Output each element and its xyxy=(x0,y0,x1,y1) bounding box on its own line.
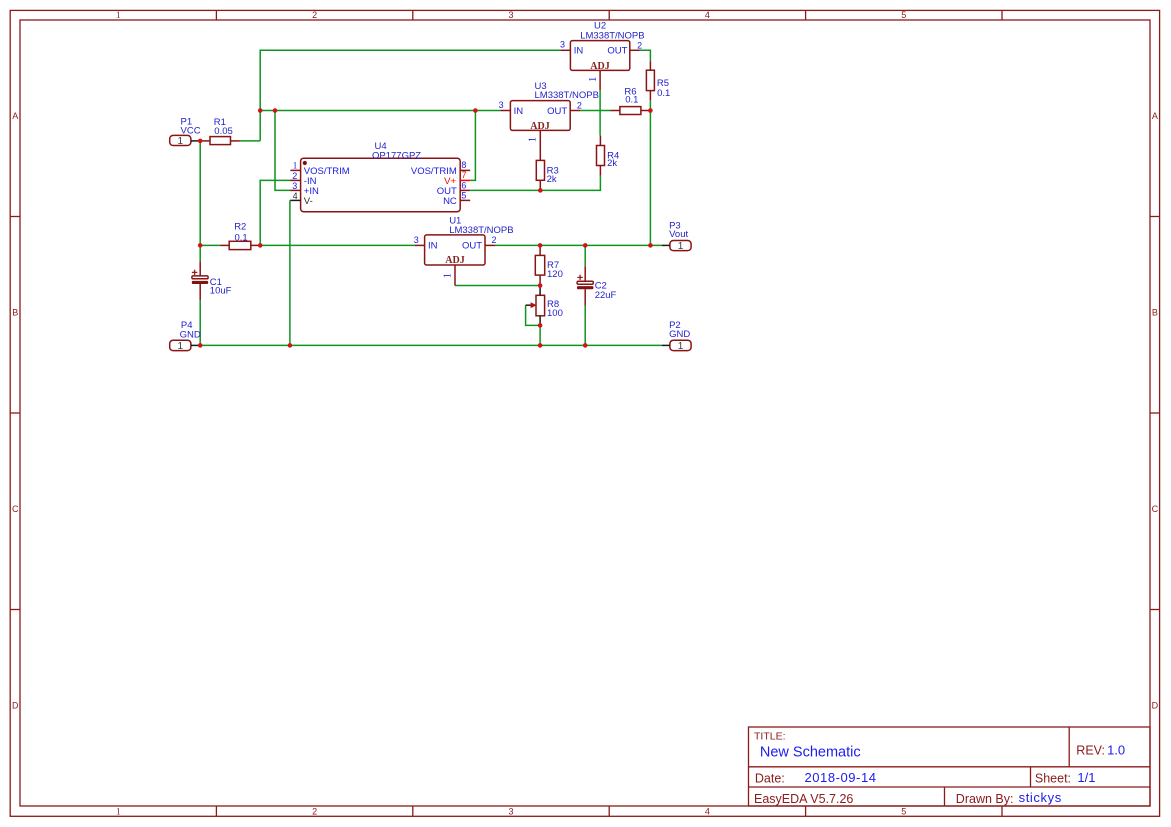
svg-text:1.0: 1.0 xyxy=(1107,743,1125,758)
svg-text:OUT: OUT xyxy=(462,241,482,252)
svg-text:GND: GND xyxy=(669,329,690,340)
svg-text:1: 1 xyxy=(116,807,121,817)
svg-text:0.05: 0.05 xyxy=(214,126,233,137)
svg-text:0.1: 0.1 xyxy=(657,88,670,99)
svg-text:A: A xyxy=(12,111,18,121)
svg-text:2: 2 xyxy=(492,235,497,245)
svg-text:3: 3 xyxy=(414,235,419,245)
svg-text:5: 5 xyxy=(901,10,906,20)
svg-text:D: D xyxy=(1152,700,1159,710)
svg-text:2k: 2k xyxy=(547,174,557,185)
svg-text:8: 8 xyxy=(461,160,466,170)
svg-text:2: 2 xyxy=(637,41,642,51)
svg-text:120: 120 xyxy=(547,269,563,280)
svg-text:2: 2 xyxy=(312,10,317,20)
svg-text:B: B xyxy=(1152,307,1158,317)
svg-text:GND: GND xyxy=(180,330,201,341)
svg-text:IN: IN xyxy=(574,46,584,57)
svg-text:LM338T/NOPB: LM338T/NOPB xyxy=(580,30,644,41)
svg-text:New Schematic: New Schematic xyxy=(760,745,861,761)
svg-text:0.1: 0.1 xyxy=(235,232,248,243)
svg-text:C: C xyxy=(12,504,19,514)
svg-text:3: 3 xyxy=(508,807,513,817)
svg-text:5: 5 xyxy=(901,807,906,817)
svg-text:C: C xyxy=(1152,504,1159,514)
svg-text:3: 3 xyxy=(499,100,504,110)
svg-text:ADJ: ADJ xyxy=(445,255,464,266)
svg-text:B: B xyxy=(12,307,18,317)
svg-text:4: 4 xyxy=(293,191,298,201)
svg-text:IN: IN xyxy=(514,106,524,117)
svg-text:1/1: 1/1 xyxy=(1077,770,1095,785)
svg-text:V-: V- xyxy=(304,196,313,207)
svg-text:OUT: OUT xyxy=(607,46,627,57)
svg-text:1: 1 xyxy=(443,273,454,278)
svg-text:1: 1 xyxy=(678,241,684,252)
svg-text:10uF: 10uF xyxy=(210,285,232,296)
svg-text:4: 4 xyxy=(705,10,710,20)
svg-text:2k: 2k xyxy=(607,158,617,169)
svg-text:REV:: REV: xyxy=(1076,744,1105,758)
svg-text:NC: NC xyxy=(443,196,457,207)
svg-text:3: 3 xyxy=(292,181,297,191)
svg-text:OP177GPZ: OP177GPZ xyxy=(372,150,421,161)
svg-text:Sheet:: Sheet: xyxy=(1035,772,1071,786)
svg-text:1: 1 xyxy=(678,341,684,352)
svg-text:ADJ: ADJ xyxy=(590,61,609,72)
svg-text:Drawn By:: Drawn By: xyxy=(956,792,1014,806)
svg-text:ADJ: ADJ xyxy=(530,121,549,132)
svg-text:OUT: OUT xyxy=(547,106,567,117)
svg-text:22uF: 22uF xyxy=(595,290,617,301)
svg-text:TITLE:: TITLE: xyxy=(754,731,786,743)
svg-text:2: 2 xyxy=(312,807,317,817)
svg-text:EasyEDA V5.7.26: EasyEDA V5.7.26 xyxy=(754,792,853,806)
svg-text:VCC: VCC xyxy=(181,125,201,136)
svg-text:6: 6 xyxy=(461,180,466,190)
svg-text:LM338T/NOPB: LM338T/NOPB xyxy=(535,90,599,101)
svg-text:3: 3 xyxy=(508,10,513,20)
svg-text:1: 1 xyxy=(178,341,184,352)
svg-text:1: 1 xyxy=(293,160,298,170)
svg-text:1: 1 xyxy=(178,136,184,147)
svg-text:stickys: stickys xyxy=(1019,790,1062,805)
svg-text:A: A xyxy=(1152,111,1158,121)
svg-text:3: 3 xyxy=(560,39,565,49)
svg-text:7: 7 xyxy=(462,170,467,180)
svg-text:2018-09-14: 2018-09-14 xyxy=(805,770,877,785)
svg-text:2: 2 xyxy=(292,171,297,181)
svg-text:LM338T/NOPB: LM338T/NOPB xyxy=(449,225,513,236)
svg-text:D: D xyxy=(12,700,19,710)
svg-text:4: 4 xyxy=(705,807,710,817)
svg-text:1: 1 xyxy=(588,77,599,82)
svg-text:IN: IN xyxy=(428,241,438,252)
svg-text:R2: R2 xyxy=(234,221,246,232)
svg-text:100: 100 xyxy=(547,308,563,319)
svg-text:2: 2 xyxy=(577,101,582,111)
svg-text:Vout: Vout xyxy=(669,229,688,240)
svg-text:1: 1 xyxy=(116,10,121,20)
svg-text:Date:: Date: xyxy=(755,772,785,786)
svg-text:0.1: 0.1 xyxy=(625,95,638,106)
svg-text:5: 5 xyxy=(461,191,466,201)
svg-text:1: 1 xyxy=(528,137,539,142)
